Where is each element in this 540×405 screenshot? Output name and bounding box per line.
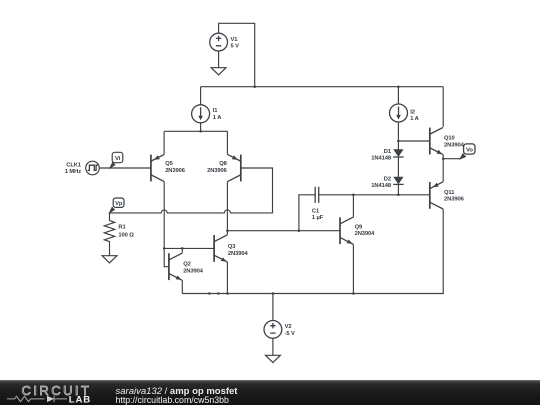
svg-text:Q5: Q5 bbox=[165, 161, 173, 167]
svg-text:Vi: Vi bbox=[115, 156, 121, 162]
svg-text:R1: R1 bbox=[118, 225, 126, 231]
svg-text:2N3906: 2N3906 bbox=[165, 168, 186, 174]
svg-text:CLK1: CLK1 bbox=[66, 162, 82, 168]
svg-text:2N3904: 2N3904 bbox=[355, 231, 376, 237]
svg-text:2N3906: 2N3906 bbox=[444, 197, 465, 203]
svg-text:1N4148: 1N4148 bbox=[371, 155, 392, 161]
svg-text:Vp: Vp bbox=[115, 201, 123, 207]
svg-text:100 Ω: 100 Ω bbox=[118, 233, 134, 239]
svg-text:LAB: LAB bbox=[69, 395, 91, 405]
svg-text:D2: D2 bbox=[384, 177, 391, 183]
svg-text:Q3: Q3 bbox=[228, 244, 236, 250]
svg-text:D1: D1 bbox=[384, 149, 392, 155]
svg-text:Q2: Q2 bbox=[183, 262, 191, 268]
svg-text:2N3904: 2N3904 bbox=[228, 251, 249, 257]
svg-text:1N4148: 1N4148 bbox=[371, 183, 392, 189]
svg-text:1 A: 1 A bbox=[213, 115, 222, 121]
svg-text:1 µF: 1 µF bbox=[312, 215, 324, 221]
svg-text:I2: I2 bbox=[410, 109, 415, 115]
svg-text:Q8: Q8 bbox=[219, 161, 227, 167]
svg-text:5 V: 5 V bbox=[231, 44, 240, 50]
svg-text:2N3906: 2N3906 bbox=[207, 168, 228, 174]
svg-text:1 MHz: 1 MHz bbox=[65, 169, 81, 175]
svg-text:Q9: Q9 bbox=[355, 224, 363, 230]
svg-text:2N3904: 2N3904 bbox=[183, 268, 204, 274]
svg-text:http://circuitlab.com/cw5n3bb: http://circuitlab.com/cw5n3bb bbox=[116, 395, 230, 405]
svg-text:V2: V2 bbox=[285, 324, 292, 330]
svg-text:-5 V: -5 V bbox=[285, 331, 295, 337]
svg-text:Q10: Q10 bbox=[444, 136, 455, 142]
svg-text:V1: V1 bbox=[231, 37, 239, 43]
svg-text:2N3904: 2N3904 bbox=[444, 142, 465, 148]
svg-text:Q11: Q11 bbox=[444, 190, 455, 196]
svg-text:1 A: 1 A bbox=[410, 116, 419, 122]
svg-text:C1: C1 bbox=[312, 208, 320, 214]
svg-text:Vo: Vo bbox=[466, 148, 473, 154]
